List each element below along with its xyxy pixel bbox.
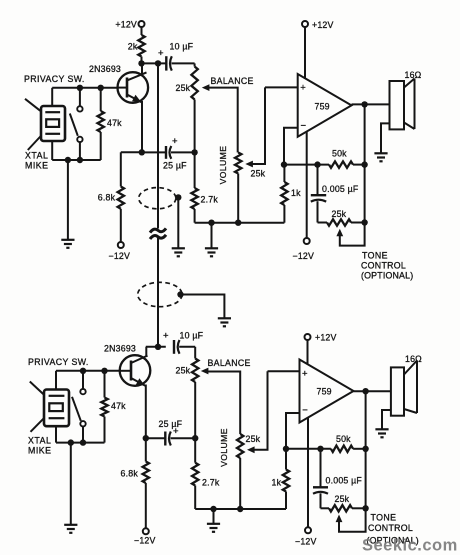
svg-text:(OPTIONAL): (OPTIONAL) — [361, 271, 413, 281]
svg-text:25 µF: 25 µF — [163, 161, 187, 171]
volume wiper arrow — [245, 161, 253, 168]
wire bottom mic rail — [52, 159, 100, 161]
potentiometer 25k TONE (bottom) — [321, 507, 330, 509]
shielded cable line (upper) — [157, 63, 159, 228]
balance wiper arrow (bottom) — [201, 368, 209, 375]
leader lines to mic label (bottom) — [30, 382, 44, 395]
microphone XTAL MIKE (bottom) — [44, 390, 69, 427]
svg-text:25k: 25k — [246, 434, 261, 444]
node collector Q1 — [142, 62, 167, 64]
-12V terminal (6.8k, bottom) — [143, 528, 149, 534]
+ input wire — [265, 86, 298, 88]
leader lines to mic label — [25, 99, 40, 111]
wire node to ground — [211, 223, 213, 248]
- input wire (bottom) — [286, 413, 300, 449]
node emitter Q2 / 25uF — [143, 435, 149, 441]
tone wiper arrow — [336, 229, 343, 237]
capacitor 10uF (top) — [165, 56, 167, 70]
svg-text:PRIVACY SW.: PRIVACY SW. — [24, 74, 85, 84]
-12V line op-amp (bottom) — [307, 418, 309, 528]
svg-text:759: 759 — [315, 102, 330, 112]
svg-text:25k: 25k — [176, 83, 191, 93]
resistor 2.7k (top) — [194, 152, 196, 188]
resistor 2.7k (bottom) — [194, 438, 196, 463]
potentiometer 25k VOLUME (top) — [235, 153, 241, 174]
potentiometer 25k TONE (top) — [318, 222, 328, 224]
capacitor 25uF (bottom) — [146, 437, 165, 439]
op-amp U2 759 (bottom) — [300, 360, 354, 423]
svg-text:25k: 25k — [251, 169, 266, 179]
capacitor 0.005uF (top) — [317, 165, 319, 196]
svg-text:MIKE: MIKE — [28, 446, 52, 456]
svg-text:VOLUME: VOLUME — [218, 146, 228, 185]
svg-text:XTAL: XTAL — [28, 436, 51, 446]
+12V terminal op-amp (bottom) — [305, 334, 311, 340]
output wire (bottom) — [354, 390, 391, 392]
svg-text:VOLUME: VOLUME — [219, 428, 229, 467]
svg-text:+: + — [300, 83, 306, 94]
feedback node wire (bottom) — [365, 391, 367, 508]
svg-text:25k: 25k — [176, 366, 191, 376]
svg-text:+12V: +12V — [315, 333, 337, 343]
op-amp U1 759 (top) — [298, 74, 352, 137]
wire emitter Q2 — [145, 385, 147, 439]
transistor Q2 2N3693 — [120, 355, 151, 386]
svg-text:25k: 25k — [332, 209, 347, 219]
node cable / collector Q2 — [155, 344, 161, 350]
svg-text:2.7k: 2.7k — [202, 478, 220, 488]
resistor 1k (top) — [283, 165, 285, 182]
svg-text:2N3693: 2N3693 — [89, 64, 121, 74]
svg-text:Seekic.com: Seekic.com — [362, 537, 458, 555]
svg-text:+12V: +12V — [312, 20, 334, 30]
resistor 50k (bottom) — [286, 448, 331, 450]
svg-text:BALANCE: BALANCE — [211, 76, 254, 86]
wire mic bottom (bottom) — [55, 426, 57, 442]
wire to ground (bottom mic) — [70, 443, 72, 524]
svg-text:+: + — [172, 136, 178, 147]
svg-text:CONTROL: CONTROL — [368, 523, 413, 533]
potentiometer 25k BALANCE (bottom) — [194, 347, 196, 359]
svg-text:−: − — [302, 405, 308, 416]
node tone pot right (bottom) — [362, 505, 368, 511]
svg-text:47k: 47k — [111, 401, 126, 411]
svg-text:MIKE: MIKE — [25, 161, 49, 171]
+12V supply terminal (top left) — [139, 21, 145, 27]
wire mic bottom — [51, 141, 53, 160]
tone wiper arrow (bottom) — [336, 515, 343, 523]
switch S2 privacy (bottom) — [82, 371, 84, 389]
svg-text:CONTROL: CONTROL — [361, 261, 406, 271]
potentiometer 25k VOLUME (bottom) — [237, 434, 243, 458]
svg-text:10 µF: 10 µF — [180, 331, 204, 341]
svg-text:1k: 1k — [272, 478, 282, 488]
node 50k/output junction (top) — [361, 161, 367, 167]
microphone XTAL MIKE (top) — [41, 106, 65, 141]
svg-text:XTAL: XTAL — [25, 151, 48, 161]
bottom node rail (top half) — [195, 222, 285, 224]
svg-text:+12V: +12V — [115, 20, 137, 30]
resistor 47k (bottom) — [104, 371, 106, 398]
wire bottom mic rail (bottom) — [56, 442, 105, 444]
feedback node wire — [364, 104, 366, 222]
resistor 50k (top) — [284, 164, 329, 166]
svg-text:+: + — [302, 368, 308, 379]
wire top rail (mic/switch/47k/base) — [52, 87, 118, 89]
svg-text:−12V: −12V — [293, 251, 315, 261]
volume wiper arrow (bottom) — [247, 446, 255, 453]
resistor 47k (top) — [100, 88, 102, 111]
resistor 6.8k (top) — [120, 152, 122, 186]
cable break symbol — [150, 228, 166, 232]
speaker ground (top) — [381, 123, 390, 152]
node 0.005uF tap (bottom) — [317, 446, 323, 452]
svg-text:+: + — [158, 48, 164, 59]
svg-text:+: + — [163, 331, 169, 342]
wire — [141, 27, 143, 35]
shield ellipse 2 (dashed) — [138, 282, 182, 306]
svg-text:0.005 µF: 0.005 µF — [322, 184, 359, 194]
wire shield 2 to ground — [181, 295, 225, 318]
svg-text:6.8k: 6.8k — [121, 469, 139, 479]
node shield 1 — [175, 194, 181, 200]
+12V terminal op-amp (top) — [302, 21, 308, 27]
svg-text:50k: 50k — [336, 434, 351, 444]
wire to ground — [67, 160, 69, 239]
node 50k/output junction (bottom) — [362, 446, 368, 452]
bottom node rail (bottom half) — [195, 508, 286, 510]
svg-text:16Ω: 16Ω — [405, 70, 422, 80]
speaker 16ohm (bottom) — [391, 367, 404, 415]
switch S1 privacy (top) — [79, 88, 81, 106]
node inverting input junction (top) — [281, 161, 287, 167]
svg-text:0.005 µF: 0.005 µF — [326, 476, 363, 486]
svg-text:−12V: −12V — [295, 537, 317, 547]
svg-text:2.7k: 2.7k — [201, 195, 219, 205]
node tone pot right (top) — [361, 219, 367, 225]
svg-text:6.8k: 6.8k — [98, 193, 116, 203]
resistor 2k — [138, 35, 144, 57]
balance wiper arrow — [202, 84, 210, 91]
svg-text:PRIVACY SW.: PRIVACY SW. — [28, 357, 89, 367]
transistor Q1 2N3693 — [118, 72, 149, 103]
node 25uF/balance/2.7k (bottom) — [192, 435, 198, 441]
svg-text:2k: 2k — [128, 42, 138, 52]
svg-text:25 µF: 25 µF — [159, 419, 183, 429]
wire node to ground (bottom) — [213, 509, 215, 523]
svg-text:−: − — [301, 120, 307, 131]
capacitor 10uF (bottom) — [173, 340, 175, 354]
svg-text:16Ω: 16Ω — [405, 354, 422, 364]
node 0.005uF tap (top) — [314, 161, 320, 167]
svg-text:10 µF: 10 µF — [170, 42, 194, 52]
resistor 1k (bottom) — [285, 449, 287, 470]
speaker 16ohm (top) — [390, 81, 405, 129]
speaker ground (bottom) — [382, 410, 391, 429]
svg-text:TONE: TONE — [371, 513, 397, 523]
svg-text:−12V: −12V — [109, 251, 131, 261]
wire — [172, 62, 195, 64]
output wire (top) — [352, 103, 390, 105]
svg-text:TONE: TONE — [362, 251, 388, 261]
svg-text:50k: 50k — [332, 149, 347, 159]
svg-text:759: 759 — [317, 387, 332, 397]
node shield 2 — [177, 291, 183, 297]
svg-text:1k: 1k — [291, 188, 301, 198]
resistor 6.8k (bottom) — [145, 438, 147, 461]
node emitter / wire to 6.8k — [121, 151, 142, 153]
+ input wire (bottom) — [268, 370, 300, 372]
wire top rail (bottom station) — [56, 370, 120, 372]
wire shield 1 to ground — [177, 197, 179, 247]
- input wire — [284, 128, 298, 165]
potentiometer 25k BALANCE (top) — [194, 63, 196, 66]
wire emitter Q1 — [141, 101, 143, 152]
-12V line op-amp (top) — [306, 132, 308, 239]
svg-text:2N3693: 2N3693 — [104, 344, 136, 354]
wire — [141, 57, 143, 64]
node inverting input junction (bottom) — [283, 446, 289, 452]
svg-text:47k: 47k — [107, 118, 122, 128]
capacitor 0.005uF (bottom) — [320, 449, 322, 488]
shield ellipse 1 (dashed) — [139, 188, 176, 209]
svg-text:BALANCE: BALANCE — [208, 358, 251, 368]
capacitor 25uF (top) — [142, 151, 166, 153]
node 25uF/balance/2.7k — [191, 149, 197, 155]
svg-text:−12V: −12V — [134, 536, 156, 546]
svg-text:25k: 25k — [335, 494, 350, 504]
-12V terminal (6.8k, top) — [118, 242, 124, 248]
